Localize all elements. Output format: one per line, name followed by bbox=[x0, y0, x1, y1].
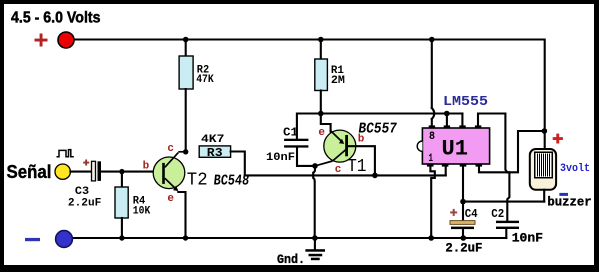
svg-text:2M: 2M bbox=[331, 75, 345, 87]
buzzer body bbox=[530, 149, 556, 190]
node R4 top bbox=[119, 169, 124, 174]
T1 base bar bbox=[345, 135, 348, 156]
wire down to C2 with hop over output wire bbox=[507, 172, 509, 221]
C4 + polarity bbox=[450, 209, 457, 216]
svg-text:U1: U1 bbox=[442, 137, 469, 162]
wire pin6 up bbox=[461, 114, 463, 126]
node output junction bbox=[460, 199, 466, 205]
buzzer grille bbox=[535, 152, 552, 178]
resistor R1 bbox=[315, 59, 328, 91]
wire trigger rail bbox=[245, 174, 446, 176]
svg-text:c: c bbox=[167, 143, 174, 155]
T1 emitter lead with arrow bbox=[331, 131, 342, 142]
wire señal to C3 bbox=[70, 171, 91, 173]
svg-text:4K7: 4K7 bbox=[201, 134, 224, 146]
wire R4 bottom bbox=[121, 218, 123, 238]
svg-text:b: b bbox=[143, 160, 150, 172]
node R4 bottom bbox=[119, 235, 124, 240]
T1 collector lead bbox=[333, 150, 347, 162]
svg-text:2.2uF: 2.2uF bbox=[68, 198, 102, 210]
wire pin5 via top to right bbox=[478, 114, 507, 173]
wire R4 top bbox=[121, 172, 123, 187]
señal input yellow circle bbox=[55, 164, 70, 179]
wire R2 top bbox=[185, 40, 187, 57]
svg-text:8: 8 bbox=[429, 131, 435, 143]
capacitor C3 bbox=[92, 161, 102, 181]
svg-text:buzzer: buzzer bbox=[547, 195, 591, 210]
C3 + polarity bbox=[83, 160, 89, 166]
svg-text:10K: 10K bbox=[133, 206, 151, 218]
svg-text:T2: T2 bbox=[187, 170, 208, 190]
node T2 emitter bottom bbox=[183, 235, 188, 240]
terminal + plus sign bbox=[35, 34, 48, 47]
svg-text:10nF: 10nF bbox=[512, 231, 543, 246]
wire R2 bottom to collector node bbox=[185, 89, 187, 152]
resistor R2 bbox=[179, 56, 193, 89]
svg-text:Señal: Señal bbox=[7, 162, 52, 182]
terminal + red circle bbox=[58, 32, 74, 48]
capacitor C1 bbox=[284, 139, 308, 148]
transistor T1 circle bbox=[324, 130, 356, 162]
buzzer - minus sign bbox=[559, 193, 568, 196]
wire T2 emitter down bbox=[178, 192, 185, 238]
svg-text:C2: C2 bbox=[491, 207, 504, 221]
wire C3 to T2 base bbox=[101, 171, 154, 173]
capacitor C4 bbox=[462, 202, 464, 221]
wire R1 bottom bbox=[320, 91, 322, 114]
node R1 top bbox=[318, 37, 324, 43]
wire buzzer bottom bbox=[543, 190, 545, 202]
svg-text:e: e bbox=[167, 193, 174, 205]
svg-text:C4: C4 bbox=[465, 207, 478, 221]
svg-text:1: 1 bbox=[429, 153, 434, 165]
node pin7 junction bbox=[444, 111, 450, 117]
node ground junction bbox=[312, 235, 318, 241]
wire pin2 to trigger rail bbox=[445, 166, 447, 175]
terminal - minus sign bbox=[25, 238, 40, 241]
wire reset net horizontal bbox=[479, 131, 544, 172]
node pin1 ground bbox=[428, 235, 434, 241]
resistor R4 bbox=[115, 187, 128, 218]
svg-text:C3: C3 bbox=[75, 186, 90, 198]
resistor R3 bbox=[199, 146, 230, 157]
node Vcc rail bbox=[429, 37, 435, 43]
svg-text:10nF: 10nF bbox=[266, 152, 295, 164]
wire R3 right down to trigger rail bbox=[231, 152, 245, 176]
node buzzer plus junction bbox=[542, 128, 548, 134]
wire bottom rail bbox=[73, 237, 507, 239]
IC U1 LM555 body bbox=[422, 128, 489, 164]
wire output to buzzer bbox=[463, 201, 544, 203]
wire C1 bottom to node bbox=[297, 148, 315, 166]
svg-text:4.5 - 6.0 Volts: 4.5 - 6.0 Volts bbox=[11, 9, 101, 26]
node R1 bottom junction bbox=[318, 111, 324, 117]
node collector T2 bbox=[183, 149, 188, 154]
wire pin3 output down bbox=[462, 166, 464, 201]
svg-text:e: e bbox=[318, 127, 325, 139]
node T1 base on rail bbox=[372, 173, 378, 179]
terminal - blue circle bbox=[56, 231, 73, 248]
U1 top pins bbox=[429, 125, 482, 128]
U1 bottom pins bbox=[427, 164, 482, 167]
svg-text:Gnd.: Gnd. bbox=[277, 252, 305, 267]
wire junction to C1 top bbox=[297, 114, 321, 139]
wire junction to 555 pins 7/6 bbox=[321, 112, 463, 114]
transistor T2 circle bbox=[153, 157, 185, 189]
node C1/T1 collector bbox=[312, 163, 318, 169]
T1 base wire to trigger rail bbox=[348, 146, 375, 175]
wire junction to T1 emitter bbox=[321, 114, 331, 132]
wire top +V rail bbox=[74, 40, 545, 150]
wire node down with hop over trigger rail bbox=[313, 166, 315, 238]
T2 collector lead bbox=[165, 153, 179, 168]
buzzer + plus sign bbox=[553, 134, 563, 144]
T2 emitter lead with arrow bbox=[165, 178, 178, 190]
svg-text:c: c bbox=[335, 164, 342, 176]
node R2 top bbox=[183, 37, 189, 43]
pulse waveform icon bbox=[57, 150, 74, 157]
svg-text:2.2uF: 2.2uF bbox=[445, 241, 482, 256]
wire Vcc to pin 8 with bump at crossing bbox=[431, 40, 433, 109]
svg-text:R3: R3 bbox=[207, 146, 223, 160]
svg-text:T1: T1 bbox=[347, 157, 366, 177]
svg-text:LM555: LM555 bbox=[443, 94, 488, 110]
U1 notch bbox=[417, 141, 422, 151]
wire pin1 to ground rail with jog bbox=[430, 166, 434, 238]
svg-text:BC557: BC557 bbox=[357, 120, 398, 138]
capacitor C2 bbox=[496, 221, 519, 223]
svg-text:3volt: 3volt bbox=[560, 163, 590, 175]
ground symbol bbox=[305, 238, 325, 260]
wire pin7 up bbox=[446, 114, 448, 126]
T2 base bar bbox=[162, 163, 165, 184]
wire R1 top bbox=[320, 40, 322, 60]
svg-text:C1: C1 bbox=[283, 126, 298, 140]
svg-text:47K: 47K bbox=[196, 74, 214, 86]
